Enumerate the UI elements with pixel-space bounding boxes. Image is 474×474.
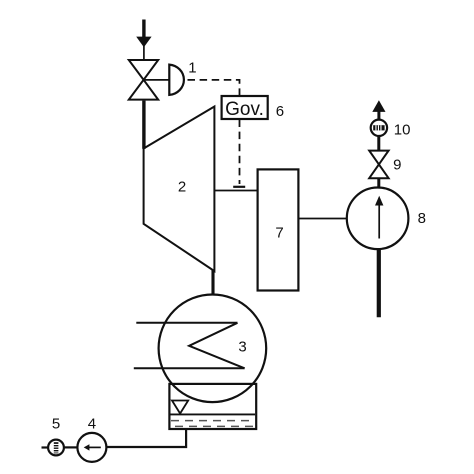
svg-text:6: 6 bbox=[276, 103, 284, 120]
wire: cooling water inlet line bbox=[136, 322, 237, 324]
wire: cooling water outlet line bbox=[134, 367, 245, 369]
governor box 6 bbox=[222, 96, 268, 119]
wire: valve 9 to meter 10 bbox=[377, 136, 380, 150]
water level line bbox=[171, 413, 256, 415]
wire: thick supply line below 8 bbox=[377, 249, 381, 317]
wire: valve to turbine steam line bbox=[142, 101, 145, 149]
condenser 3 (shell circle) bbox=[159, 295, 267, 403]
wire: dashed control line actuator to governor bbox=[188, 80, 240, 96]
meter 5 (circle with striped orifice bar) bbox=[48, 440, 64, 456]
level indicator triangle bbox=[172, 401, 188, 414]
wire: device 8 to valve 9 bbox=[377, 178, 380, 187]
heat exchanger coil zigzag bbox=[189, 323, 245, 369]
wire: meter 5 outlet stub bbox=[42, 446, 49, 448]
wire: generator to device 8 bbox=[298, 218, 347, 220]
wire: steam inlet line with down arrow bbox=[136, 20, 151, 61]
wire: pump to meter 5 bbox=[64, 446, 78, 448]
wire: outlet line with up arrow above meter 10 bbox=[372, 100, 385, 119]
svg-text:8: 8 bbox=[418, 210, 426, 227]
svg-text:5: 5 bbox=[52, 415, 60, 432]
turbine 2 bbox=[144, 107, 215, 272]
meter 10 (circle with striped orifice bar) bbox=[371, 120, 387, 136]
device 8 (circle with up arrow) bbox=[347, 188, 409, 250]
svg-text:2: 2 bbox=[178, 179, 186, 196]
svg-text:7: 7 bbox=[275, 225, 283, 242]
wire: valve stem to actuator bbox=[145, 79, 170, 81]
svg-text:1: 1 bbox=[188, 60, 196, 77]
svg-text:10: 10 bbox=[394, 121, 411, 138]
hotwell tank bbox=[169, 384, 256, 429]
wire: dashed control line governor to turbine, with end bar bbox=[233, 120, 245, 187]
pump 4 (circle with left arrow) bbox=[77, 433, 106, 462]
valve 9 bbox=[369, 151, 388, 179]
wire: turbine exhaust to condenser bbox=[211, 270, 214, 295]
svg-text:4: 4 bbox=[88, 415, 96, 432]
generator 7 bbox=[258, 169, 299, 290]
svg-text:9: 9 bbox=[393, 157, 401, 174]
valve (steam admission valve) bbox=[129, 60, 158, 100]
svg-text:3: 3 bbox=[238, 339, 246, 356]
actuator 1 (valve operator, D-shape) bbox=[169, 65, 184, 95]
water fill dashes bbox=[171, 421, 255, 427]
svg-text:Gov.: Gov. bbox=[225, 99, 264, 120]
wire: hotwell outlet to pump bbox=[107, 430, 187, 448]
wire: turbine shaft to generator bbox=[215, 190, 258, 192]
